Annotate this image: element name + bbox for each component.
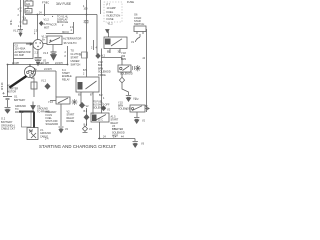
- connector bar under alternator: [35, 58, 42, 60]
- svg-text:V1.2: V1.2: [108, 23, 114, 26]
- tick marks left bus cluster: [19, 8, 24, 22]
- solenoid small box on starter: [31, 82, 37, 89]
- svg-text:2: 2: [18, 15, 20, 17]
- dark arrow V2 above start relay diode: [81, 102, 83, 104]
- wire Y13 feed: [50, 100, 56, 102]
- Y13 diagonal: [58, 98, 68, 103]
- svg-text:24: 24: [103, 136, 106, 139]
- ground symbol Y15 V2: [134, 118, 139, 120]
- Y15 solenoid box: [130, 105, 145, 112]
- svg-text:Y.13: Y.13: [48, 101, 53, 104]
- svg-text:4: 4: [18, 9, 20, 11]
- star connector right of Y18: [135, 65, 141, 71]
- svg-text:24 WH: 24 WH: [12, 63, 19, 65]
- svg-text:▸: ▸: [52, 15, 54, 18]
- wire drop from top bus at x=97: [96, 15, 98, 58]
- svg-text:INJECTION: INJECTION: [107, 13, 121, 17]
- wire starter top stub: [29, 65, 31, 67]
- A15 pin down: [99, 122, 101, 139]
- K4 pin right: [92, 92, 94, 114]
- svg-text:SWITCH: SWITCH: [134, 22, 144, 26]
- K12 relay box: [104, 37, 127, 49]
- svg-text:L2: L2: [24, 18, 27, 20]
- junction dot bus right end: [67, 64, 69, 66]
- alternator data box: [14, 43, 34, 59]
- junction dot y71: [33, 70, 35, 72]
- regulator dot: [50, 40, 52, 42]
- svg-text:BATTERY: BATTERY: [14, 99, 26, 102]
- alternator terminal dot right: [40, 42, 41, 43]
- junction dot starter top: [29, 64, 31, 66]
- svg-text:2: 2: [83, 74, 85, 76]
- svg-text:52 C: 52 C: [98, 120, 103, 122]
- fuse box F1 top-left: [25, 1, 33, 6]
- thick starter cable diagonal: [10, 76, 27, 88]
- wire horizontal y=33.5 regulator feed: [46, 33, 74, 35]
- svg-text:SOLENOID: SOLENOID: [46, 123, 59, 126]
- svg-text:8: 8: [65, 56, 67, 58]
- wire alternator output down: [37, 50, 39, 58]
- svg-text:4: 4: [103, 98, 105, 100]
- ground symbol top-left V1.2: [18, 27, 23, 33]
- Y15 coil circle: [132, 108, 134, 110]
- svg-text:100: 100: [84, 9, 89, 11]
- Y18 solenoid box: [118, 65, 131, 72]
- svg-text:2: 2: [91, 48, 93, 50]
- Y13 solenoid box: [56, 97, 70, 104]
- alternator terminal dot left: [35, 42, 36, 43]
- wire arrow into alternator: [26, 43, 30, 45]
- wire alternator feed x=37.5: [37, 15, 39, 40]
- svg-text:G.2: G.2: [1, 117, 6, 121]
- wire stub box to bus: [13, 59, 15, 65]
- Y15 arrow right: [145, 107, 149, 110]
- svg-text:MODULE: MODULE: [57, 20, 68, 24]
- dark diamond connector F5 V2: [101, 106, 105, 111]
- ground symbol under alternator V2: [35, 60, 41, 63]
- wire long vertical x=86.5 start signal: [86, 0, 88, 77]
- svg-text:V.2: V.2: [102, 55, 106, 58]
- battery ground block box: [27, 128, 38, 140]
- svg-text:STARTING AND CHARGING CIRCUIT: STARTING AND CHARGING CIRCUIT: [39, 144, 116, 149]
- svg-text:NO AMP: NO AMP: [15, 54, 25, 57]
- junction dot top bus x=86.5: [86, 14, 88, 16]
- wire starter solenoid x=34: [33, 78, 35, 98]
- star connector mark near Y13: [72, 99, 78, 105]
- wire pin into F1: [27, 0, 31, 9]
- ground arrow under battery: [5, 108, 11, 110]
- svg-text:44: 44: [121, 136, 124, 139]
- svg-text:RELAY: RELAY: [62, 78, 70, 81]
- svg-text:4T4: 4T4: [26, 11, 31, 13]
- Y18 connector bars right: [133, 66, 135, 70]
- stub into connector box: [79, 54, 82, 56]
- svg-text:ACCR: ACCR: [50, 24, 57, 27]
- K12 diagonal contact: [111, 39, 122, 46]
- svg-text:FUEL: FUEL: [107, 10, 114, 14]
- wire x=73.5 display module drop: [73, 22, 75, 34]
- K4 diagonal contact: [86, 81, 97, 89]
- svg-text:BRN: BRN: [121, 58, 126, 61]
- svg-text:V2: V2: [86, 105, 90, 108]
- G6 switch hook contact: [136, 34, 141, 42]
- wire bottom bus y=138.5: [98, 139, 135, 142]
- ground symbol V2 top middle: [39, 60, 41, 62]
- svg-text:V1.2: V1.2: [44, 18, 50, 22]
- svg-text:W 4L: W 4L: [11, 19, 13, 25]
- Y18 diagonal: [123, 66, 130, 71]
- svg-text:V1.3: V1.3: [43, 52, 49, 55]
- alternator terminal dot bottom: [37, 46, 38, 47]
- svg-text:GROUND(-): GROUND(-): [1, 123, 15, 127]
- X marks in ground block: [29, 130, 36, 139]
- svg-text:DIODE: DIODE: [67, 120, 75, 123]
- thick cable corner battery ground: [19, 112, 34, 129]
- svg-text:10 AMP: 10 AMP: [107, 6, 116, 10]
- battery disconnect switch box: [22, 111, 32, 127]
- dark arrow ground V1 left: [31, 102, 35, 110]
- svg-text:W 4 24: W 4 24: [2, 82, 4, 90]
- svg-text:A-TN: A-TN: [44, 22, 50, 26]
- V.2 diamond connector mid right: [96, 54, 100, 59]
- K12 pin right: [119, 49, 121, 54]
- svg-text:WOR: WOR: [112, 134, 118, 137]
- wire Y13 box to ground: [60, 104, 62, 126]
- svg-text:4: 4: [71, 30, 73, 32]
- svg-text:SWITCH: SWITCH: [71, 63, 81, 66]
- G6 switch stubs: [137, 32, 143, 35]
- ground diamond V2 bottom x=85: [83, 126, 88, 131]
- wire main bus y=64.5: [8, 64, 69, 66]
- svg-text:2-4: 2-4: [45, 139, 49, 141]
- Y18 pin down: [121, 72, 123, 77]
- svg-text:MOT: MOT: [44, 28, 50, 30]
- svg-text:V2: V2: [65, 128, 69, 131]
- ground symbol Y18 V.2: [126, 96, 131, 98]
- regulator diagonal: [49, 38, 60, 43]
- svg-text:G.2: G.2: [29, 130, 34, 133]
- connector small box left x=23-27: [23, 20, 27, 24]
- svg-text:V2: V2: [142, 120, 146, 123]
- svg-text:4 4: 4 4: [18, 26, 22, 28]
- junction dot top bus x=37.5: [37, 14, 39, 16]
- svg-text:B+: B+: [42, 39, 46, 42]
- wire left battery bus: [7, 65, 9, 97]
- dark connector diamond V1.2 near fuse: [39, 21, 43, 25]
- wire left bus top x=20.5: [20, 0, 22, 27]
- starter brush bar: [28, 70, 32, 72]
- wire K4 pin to diamond x=81: [80, 102, 82, 105]
- svg-text:SOLENOID: SOLENOID: [118, 108, 131, 111]
- svg-text:V1.2: V1.2: [13, 30, 19, 33]
- Y18 coil circle: [120, 67, 122, 69]
- starter brush circle left: [27, 71, 29, 73]
- alternator circle G3: [33, 40, 43, 50]
- wire drop x=56: [55, 71, 57, 97]
- wire right bus x=146.5: [146, 29, 148, 112]
- connector block on start signal wire: [85, 20, 88, 23]
- K4 pin left: [80, 92, 82, 103]
- svg-text:V2: V2: [89, 128, 93, 131]
- starter motor circle M1: [24, 66, 35, 77]
- ground diamond starter frame: [45, 84, 50, 90]
- wire pair x=93.5 short: [93, 40, 95, 50]
- A15 diagonal: [95, 115, 106, 121]
- svg-text:V3: V3: [141, 143, 145, 146]
- starter commutator mark: [29, 74, 31, 77]
- svg-text:36 FU: 36 FU: [62, 31, 69, 34]
- svg-text:GEN WH: GEN WH: [39, 62, 49, 65]
- G6 cold start switch box: [134, 26, 146, 32]
- dark diamond arrow K4 lower: [79, 103, 84, 109]
- junction dot bottom bus: [99, 138, 101, 140]
- svg-text:SOLENOID: SOLENOID: [120, 73, 133, 76]
- svg-text:FRAME: FRAME: [15, 111, 24, 114]
- junction dot bus left: [7, 64, 9, 66]
- wire Y18 feed horizontal y=57.5: [101, 58, 122, 66]
- regulator box: [47, 36, 62, 45]
- svg-text:V1.2: V1.2: [41, 80, 47, 83]
- svg-text:F7/8C: F7/8C: [42, 0, 49, 4]
- regulator pin stub: [52, 45, 54, 52]
- svg-text:24: 24: [143, 58, 146, 60]
- ground symbol bottom middle V2: [59, 127, 64, 129]
- svg-text:B.2: B.2: [99, 95, 103, 97]
- relay box small top-left: [25, 9, 32, 14]
- svg-text:B.3: B.3: [84, 111, 88, 113]
- wire alternator to regulator: [43, 43, 47, 45]
- svg-text:FUSE: FUSE: [107, 17, 114, 21]
- F7 fuse dashed box: [104, 2, 122, 22]
- svg-text:V2: V2: [107, 109, 111, 112]
- svg-text:36 VOLTO: 36 VOLTO: [64, 41, 78, 45]
- wire stub left of F7: [100, 0, 102, 14]
- arrow under F7 fuse: [106, 30, 109, 33]
- wire top bus y=14.5: [25, 14, 97, 16]
- Y18 lower diamond connector: [119, 77, 124, 83]
- svg-text:36A: 36A: [31, 74, 36, 77]
- wire regulator stub to bus: [67, 46, 69, 65]
- svg-text:FUSE: FUSE: [127, 0, 134, 4]
- svg-text:2: 2: [62, 25, 64, 27]
- wire x=23.5 top: [23, 0, 25, 20]
- dark diamond junction x=86.5: [84, 115, 89, 120]
- svg-text:24 WH: 24 WH: [44, 68, 52, 71]
- svg-text:34V FUSE: 34V FUSE: [56, 2, 71, 6]
- svg-text:V.2: V.2: [135, 98, 139, 101]
- wire fuse drop x=44.5: [44, 4, 46, 16]
- arrowhead into alternator: [30, 42, 34, 46]
- battery G1 plates: [3, 96, 12, 98]
- wire x=86.5 starter signal lower: [86, 108, 88, 126]
- wire y=71 solenoid feed: [36, 70, 57, 72]
- K12 pin left: [109, 49, 111, 54]
- ground symbol bottom right V3: [133, 142, 138, 144]
- wire x=101.5 right mid drop: [101, 49, 103, 114]
- svg-text:4: 4: [34, 34, 36, 36]
- battery plus tick: [2, 92, 4, 94]
- Y15 diagonal: [132, 106, 142, 111]
- svg-text:CABLE CKT: CABLE CKT: [1, 127, 16, 131]
- svg-text:F 7: F 7: [107, 3, 111, 7]
- svg-text:DIODE: DIODE: [98, 74, 106, 77]
- svg-text:24 WH: 24 WH: [55, 62, 63, 65]
- wire Y18 diamond to ground: [122, 83, 129, 95]
- svg-text:BATTERY: BATTERY: [1, 120, 13, 124]
- svg-text:2: 2: [65, 52, 67, 54]
- wire K12 coil feed from fuse: [108, 32, 110, 38]
- A15 start relay box: [91, 113, 109, 122]
- svg-text:A41: A41: [26, 3, 31, 6]
- svg-text:MOTOR: MOTOR: [7, 91, 16, 94]
- svg-text:SOLENOID: SOLENOID: [93, 107, 106, 110]
- connector box on start signal wire mid: [82, 52, 88, 58]
- svg-text:V1: V1: [131, 41, 135, 44]
- Y15 pin to ground: [136, 112, 138, 117]
- wire battery to ground: [7, 100, 9, 107]
- svg-text:B.4: B.4: [84, 125, 88, 127]
- starter brush circle right: [31, 71, 33, 73]
- K12 coil blob: [105, 39, 111, 45]
- K4 coil blob: [78, 82, 83, 90]
- A15 coil blob: [92, 115, 97, 122]
- K4 relay box: [76, 77, 99, 92]
- ground symbol regulator thick: [51, 52, 57, 54]
